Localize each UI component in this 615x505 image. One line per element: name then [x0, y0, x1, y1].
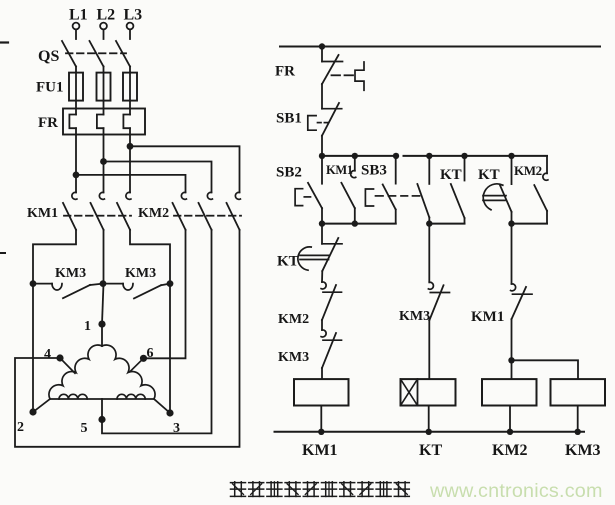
- scan artifact mid left: [0, 252, 5, 254]
- thermal relay FR box: [63, 109, 145, 135]
- coil KM3: [551, 379, 606, 405]
- thermal relay FR heater element 3: [123, 101, 130, 135]
- SB3 linkage dashed line: [376, 195, 420, 197]
- KT delay symbol on NO contact: [483, 184, 506, 210]
- motor winding right side coils: [102, 345, 155, 399]
- KM2 linkage dashed line: [174, 215, 241, 217]
- svg-text:L2: L2: [97, 7, 116, 24]
- terminal L3: [124, 7, 143, 40]
- svg-text:KM2: KM2: [492, 442, 528, 459]
- svg-text:SB2: SB2: [276, 165, 302, 181]
- wire KM2 pole3 to terminal 4: [15, 230, 240, 447]
- contactor KM1 auxiliary NO contact label: [326, 163, 353, 177]
- node KM1 coil bottom: [318, 429, 324, 435]
- SB1 actuator E symbol: [308, 116, 328, 131]
- node bus2 SB2: [319, 153, 325, 159]
- contactor KM3 NC contact middle label: [399, 309, 430, 324]
- FR trip linkage dashed line: [332, 74, 354, 76]
- relay KT delayed NC contact label: [277, 254, 299, 270]
- wire KM3 coil to bottom bus: [577, 406, 579, 432]
- motor terminal 4: [56, 354, 75, 373]
- svg-text:KM1: KM1: [326, 163, 353, 177]
- contactor KM1 main contact pole 3: [117, 192, 131, 229]
- wire tap phase1 to KM2 pole1: [76, 175, 186, 193]
- control bus bottom: [275, 431, 585, 433]
- node bus2 KT delayed: [508, 153, 514, 159]
- svg-text:KM3: KM3: [125, 266, 156, 281]
- svg-text:2: 2: [17, 420, 24, 435]
- svg-text:5: 5: [81, 421, 88, 436]
- wire KM3 NC to KT coil: [428, 320, 430, 379]
- fuse FU1 pole 2: [97, 73, 111, 101]
- node tap phase3: [127, 143, 134, 150]
- contactor KM2 main contact pole 2: [199, 192, 213, 229]
- FR trip actuator symbol: [355, 62, 364, 90]
- svg-text:KT: KT: [478, 167, 500, 183]
- svg-text:KT: KT: [440, 167, 462, 183]
- node C junction: [167, 280, 174, 287]
- contactor KM3 interlock NC contact label: [278, 350, 309, 365]
- node bus2 SB3b: [426, 153, 432, 159]
- SB2 actuator E symbol: [295, 189, 310, 206]
- scan artifact top left: [0, 41, 8, 43]
- KM1 linkage dashed line: [64, 215, 131, 217]
- wire KM2 pole1 to terminal 6: [144, 230, 186, 358]
- svg-text:SB1: SB1: [276, 111, 302, 127]
- caption text 双速电动机调速控制线路 (drawn strokes): [231, 482, 410, 497]
- thermal relay FR NC contact label: [275, 64, 295, 80]
- wire tap phase3 to KM2 pole3: [130, 146, 240, 192]
- fuse FU1 pole 3: [123, 73, 137, 101]
- KT delay symbol on NC contact: [298, 247, 329, 270]
- svg-text:KM1: KM1: [471, 309, 504, 325]
- terminal L2: [97, 7, 116, 40]
- wire L3 QS to fuse: [129, 67, 131, 73]
- relay KT delayed closing NO contact: [500, 156, 512, 224]
- wire phase1 FR to KM1 contact: [75, 135, 77, 193]
- svg-text:KT: KT: [277, 254, 299, 270]
- motor terminal 5 label: [81, 421, 88, 436]
- coil KM3 label: [565, 442, 601, 459]
- contactor KM3 contact 1: [52, 284, 103, 299]
- contactor KM2 main contact pole 3: [227, 192, 241, 229]
- contactor KM2 interlock NC contact label: [278, 312, 309, 327]
- node KM2 coil bottom: [507, 429, 513, 435]
- wire L1 QS to fuse: [75, 67, 77, 73]
- relay KT delayed NO contact label: [478, 167, 500, 183]
- wire KT coil to bottom bus: [428, 406, 430, 432]
- svg-text:KM1: KM1: [302, 442, 338, 459]
- wire KM1 pole2 down: [103, 230, 105, 284]
- contactor KM2 interlock NC contact: [321, 282, 341, 320]
- wire KM2 NC to KM3 NC: [321, 320, 323, 330]
- coil KM1: [294, 379, 349, 405]
- svg-text:4: 4: [44, 347, 51, 362]
- svg-text:SB3: SB3: [361, 163, 387, 179]
- contactor KM2 label: [138, 206, 169, 221]
- thermal relay FR label: [38, 115, 58, 131]
- contactor KM1 auxiliary NO contact: [341, 156, 355, 224]
- wire node B to motor terminal 1: [102, 284, 104, 325]
- svg-text:KM3: KM3: [278, 350, 309, 365]
- coil KM1 label: [302, 442, 338, 459]
- wire terminal1 to winding apex: [101, 324, 103, 346]
- svg-text:KM2: KM2: [138, 206, 169, 221]
- wire split to KM2 coil: [511, 360, 513, 379]
- contactor KM2 auxiliary NO contact: [534, 156, 548, 224]
- switch QS label: [38, 48, 59, 65]
- motor terminal 2 label: [17, 420, 24, 435]
- contactor KM3 NC contact middle: [428, 282, 449, 320]
- wire KM1 coil to bottom bus: [320, 406, 322, 432]
- motor terminal 1: [98, 321, 105, 328]
- wire tap phase2 to KM2 pole2: [104, 162, 212, 193]
- motor terminal 1 label: [84, 319, 91, 334]
- control node bus 3 segment 1: [319, 220, 396, 226]
- node tap phase1: [73, 172, 80, 179]
- wire KT node down: [511, 224, 513, 284]
- motor terminal 3: [154, 399, 174, 417]
- control node bus 3 segment 2: [426, 220, 464, 226]
- node bus2 SB3: [393, 153, 399, 159]
- terminal L1: [69, 7, 88, 40]
- node KT coil bottom: [426, 429, 432, 435]
- thermal relay FR heater element 2: [97, 101, 104, 135]
- wire split to KM3 coil: [512, 360, 579, 379]
- control node bus 3 segment 3: [508, 220, 547, 226]
- wire SB3b node down: [428, 224, 430, 283]
- relay KT instantaneous NO contact: [451, 156, 465, 224]
- contactor KM2 main contact pole 1: [173, 192, 187, 229]
- motor winding left side coils: [49, 345, 102, 399]
- svg-text:QS: QS: [38, 48, 59, 65]
- node bus2 KT: [461, 153, 467, 159]
- motor terminal 2: [29, 399, 50, 416]
- wire KM1 pole1 to node A: [33, 230, 76, 284]
- contactor KM3 contact 2 label: [125, 266, 156, 281]
- node bus2 KM1: [352, 153, 358, 159]
- svg-text:KM3: KM3: [55, 266, 86, 281]
- motor winding bottom bar: [50, 398, 154, 400]
- contactor KM1 interlock NC contact: [511, 284, 532, 319]
- motor winding bottom coils left group: [59, 394, 87, 399]
- SB3 actuator E symbol: [365, 189, 373, 206]
- node control bus top junction: [319, 43, 325, 49]
- coil KT with time-delay box: [401, 379, 456, 405]
- motor terminal 6: [130, 355, 147, 372]
- motor terminal 6 label: [147, 346, 154, 361]
- svg-text:FU1: FU1: [36, 80, 64, 96]
- svg-text:FR: FR: [38, 115, 58, 131]
- pushbutton SB1 label: [276, 111, 302, 127]
- wire SB1 to bus2: [321, 136, 323, 156]
- control bus top: [280, 46, 600, 48]
- KM3 shorting bar mid segment: [103, 283, 123, 285]
- motor terminal 4 label: [44, 347, 51, 362]
- svg-text:KT: KT: [419, 442, 442, 459]
- svg-text:KM3: KM3: [565, 442, 601, 459]
- KM3 shorting bar left segment: [33, 283, 52, 285]
- control bus 2 right segment: [404, 155, 548, 157]
- thermal relay FR heater element 1: [69, 101, 76, 135]
- pushbutton SB2 label: [276, 165, 302, 181]
- contactor KM3 interlock NC contact: [321, 330, 341, 368]
- coil KM2 label: [492, 442, 528, 459]
- fuse FU1 label: [36, 80, 64, 96]
- motor terminal 5: [98, 399, 105, 423]
- wire phase2 FR to KM1 contact: [103, 135, 105, 193]
- svg-text:L3: L3: [124, 7, 143, 24]
- switch QS pole 3 blade: [116, 41, 130, 67]
- pushbutton SB1 NC contact: [322, 103, 342, 136]
- node A junction: [30, 280, 37, 287]
- contactor KM3 contact 2: [123, 284, 170, 299]
- pushbutton SB3 label: [361, 163, 387, 179]
- pushbutton SB2 NO contact: [308, 156, 322, 224]
- wire FR to SB1: [321, 84, 323, 109]
- wire KM2 pole2 to terminal 5: [102, 230, 212, 434]
- contactor KM1 main contact pole 1: [63, 192, 77, 229]
- coil KM2: [482, 379, 537, 405]
- switch QS linkage dashed line: [66, 52, 126, 54]
- node KM3 coil bottom: [575, 429, 581, 435]
- svg-text:KM1: KM1: [27, 206, 58, 221]
- wire phase3 FR to KM1 contact: [129, 135, 131, 193]
- wire KT NC to KM2 NC: [321, 271, 323, 282]
- svg-text:L1: L1: [69, 7, 88, 24]
- control bus 2 left segment: [322, 155, 398, 157]
- pushbutton SB3 NO contact: [383, 156, 396, 224]
- wire KM1 NC down to split node: [511, 319, 513, 360]
- switch QS pole 2 blade: [90, 41, 104, 67]
- contactor KM3 contact 1 label: [55, 266, 86, 281]
- contactor KM1 main contact pole 2: [91, 192, 105, 229]
- wire KM2 coil to bottom bus: [509, 406, 511, 432]
- wire node C to motor terminal 3: [169, 284, 171, 413]
- wire KM3 NC to KM1 coil: [321, 368, 323, 379]
- thermal relay FR NC contact: [322, 47, 343, 85]
- contactor KM2 auxiliary NO contact label: [514, 163, 542, 178]
- svg-text:KM2: KM2: [514, 163, 542, 178]
- node tap phase2: [100, 158, 107, 165]
- wire L2 QS to fuse: [103, 67, 105, 73]
- watermark www.cntronics.com: [429, 480, 603, 502]
- motor winding bottom coils right group: [117, 394, 145, 399]
- coil KT label: [419, 442, 442, 459]
- svg-text:KM2: KM2: [278, 312, 309, 327]
- wire node A to motor terminal 2: [32, 284, 34, 412]
- svg-text:KM3: KM3: [399, 309, 430, 324]
- svg-text:FR: FR: [275, 64, 295, 80]
- motor terminal 3 label: [173, 421, 180, 436]
- wire KM1 pole3 to node C: [130, 230, 170, 284]
- relay KT delayed opening NC contact: [322, 224, 342, 271]
- svg-text:1: 1: [84, 319, 91, 334]
- node B junction: [100, 280, 107, 287]
- relay KT instantaneous NO contact label: [440, 167, 462, 183]
- pushbutton SB3 linked NO contact: [417, 156, 429, 224]
- fuse FU1 pole 1: [69, 73, 83, 101]
- contactor KM1 label: [27, 206, 58, 221]
- node coil split: [508, 357, 514, 363]
- contactor KM1 interlock NC contact label: [471, 309, 504, 325]
- switch QS pole 1 blade: [62, 41, 76, 67]
- svg-text:www.cntronics.com: www.cntronics.com: [429, 480, 603, 502]
